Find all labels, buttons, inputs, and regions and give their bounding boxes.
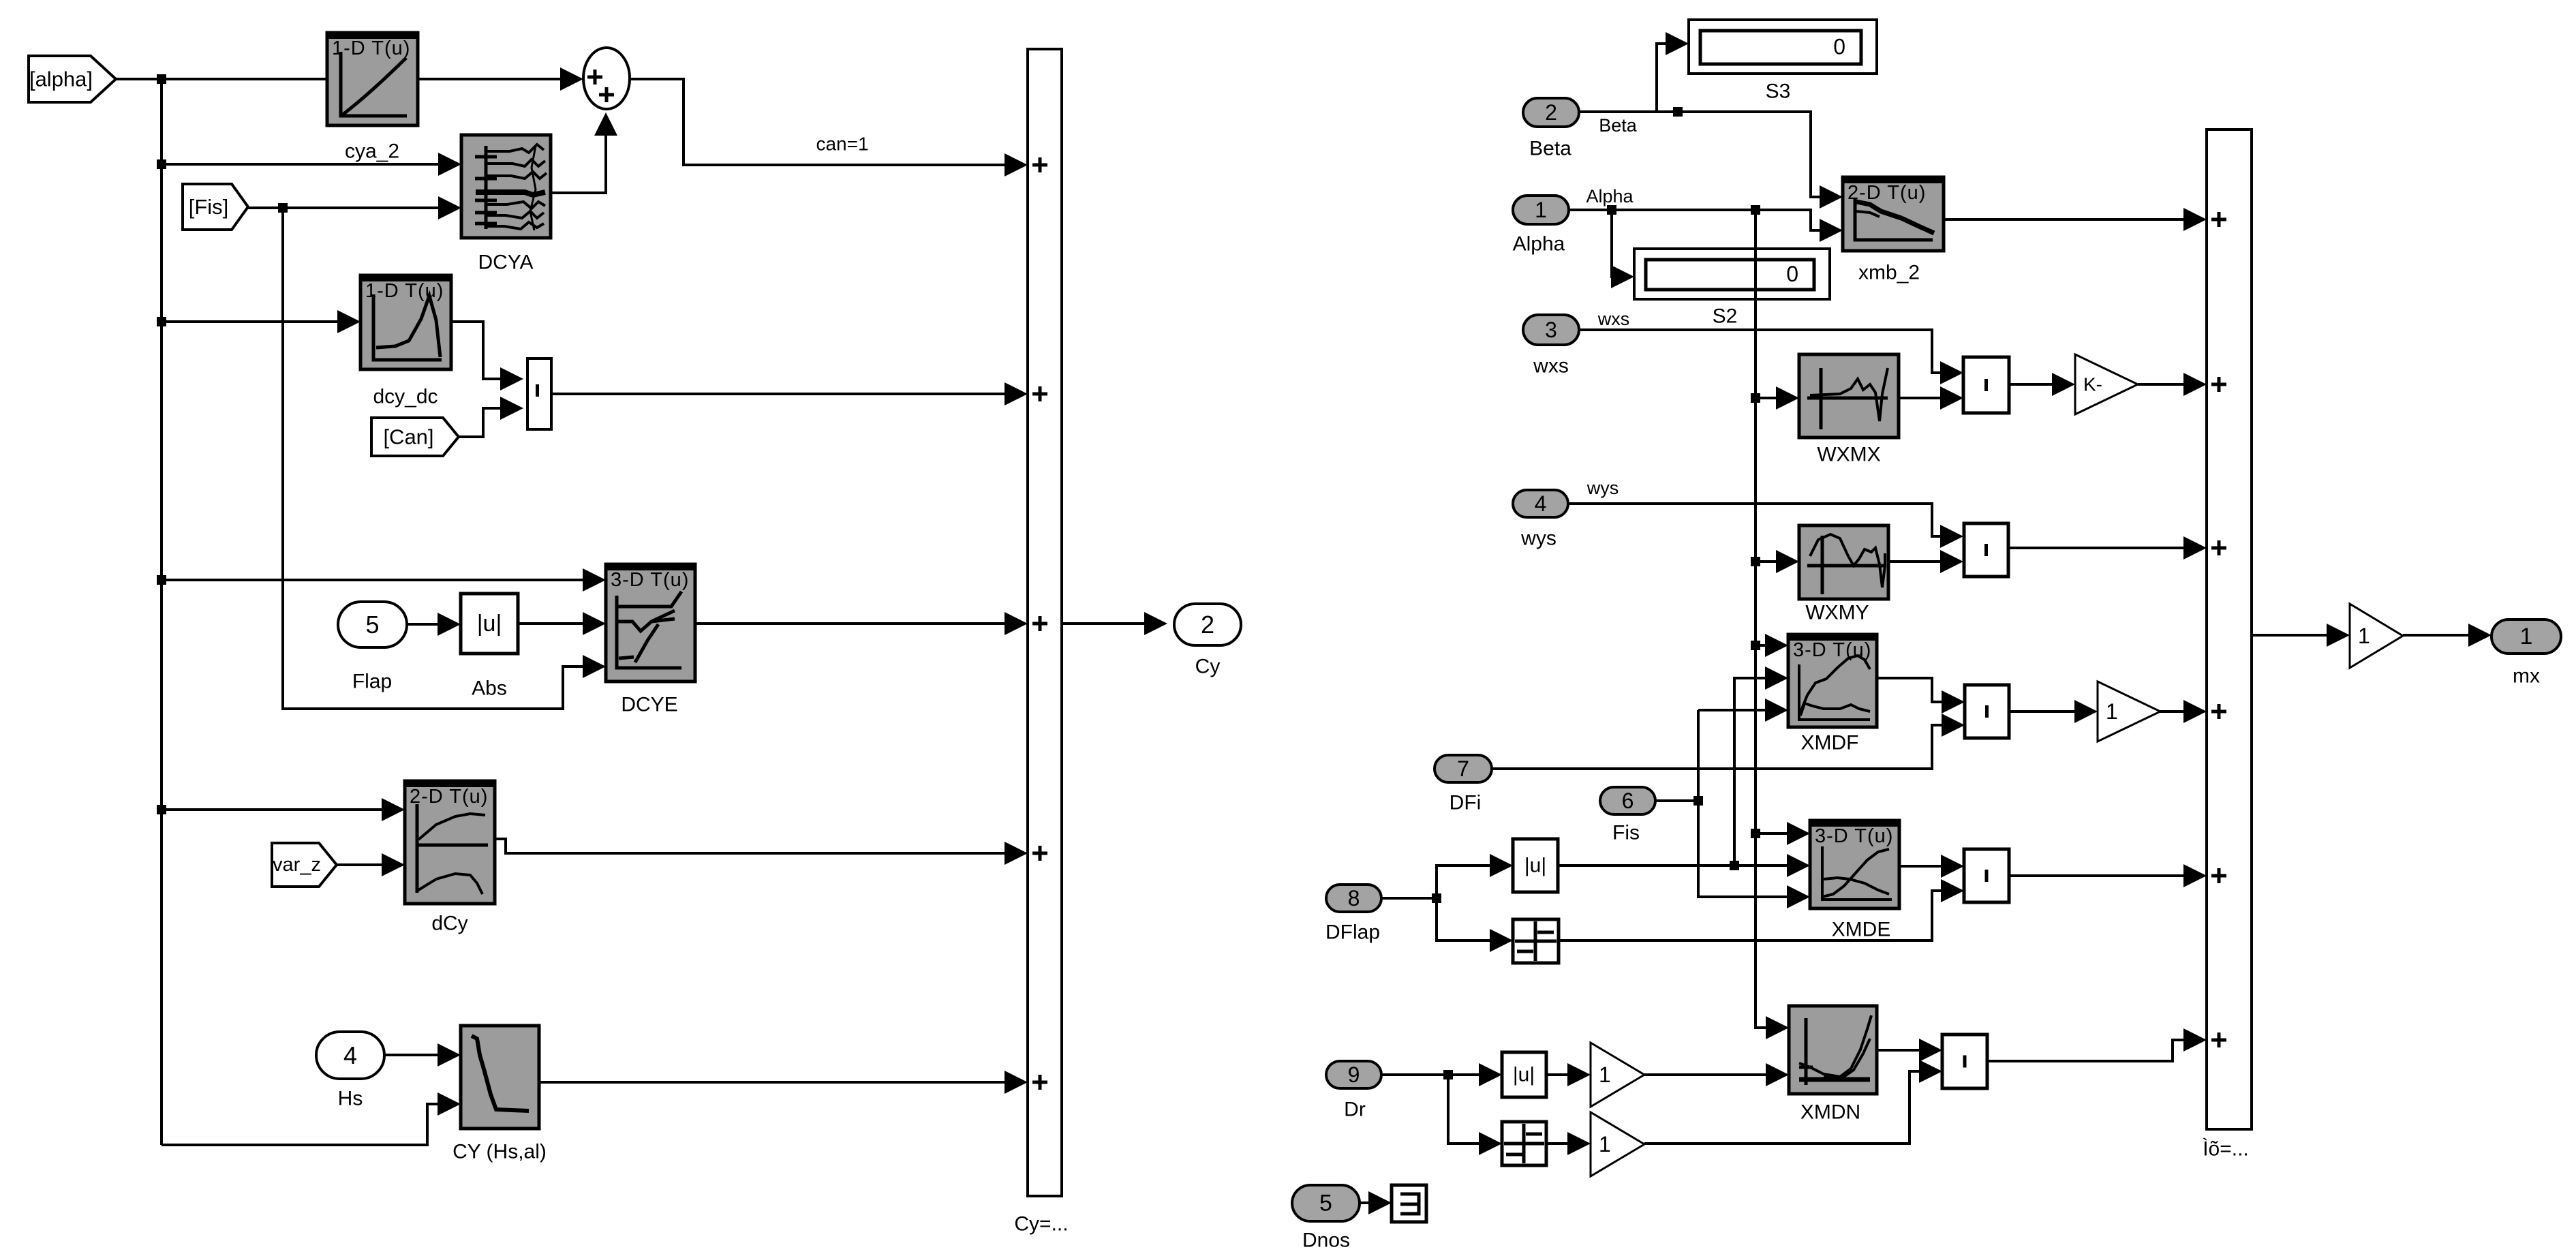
svg-text:Beta: Beta (1599, 115, 1638, 136)
junction Alpha bus XMDF (1751, 641, 1760, 650)
svg-text:DCYA: DCYA (478, 251, 533, 274)
inport 5 Flap (338, 602, 407, 647)
wire dCy out to Sum1 row4 (495, 839, 1021, 853)
svg-text:WXMX: WXMX (1817, 444, 1880, 466)
svg-text:1: 1 (2106, 699, 2118, 724)
svg-text:DFlap: DFlap (1325, 921, 1380, 944)
svg-text:4: 4 (343, 1041, 357, 1069)
wire Dr to Abs4 (1448, 1073, 1495, 1076)
wire sum2 out to Sum1 row2 (551, 393, 1021, 395)
wire alpha branch to DCYE in1 (162, 579, 599, 581)
gain 1 (Dr table) (1591, 1112, 1644, 1176)
wire WXMX out to product1 in2 (1899, 397, 1957, 399)
wire XMDE out to product4 in1 (1899, 865, 1957, 868)
wire Abs to DCYE in2 (518, 622, 599, 625)
svg-text:dcy_dc: dcy_dc (373, 386, 438, 408)
svg-text:wxs: wxs (1533, 355, 1569, 378)
svg-text:Cy=...: Cy=... (1014, 1213, 1068, 1236)
plus signs Sum2 (2211, 212, 2226, 227)
wire product4 to Sum row5 (2009, 874, 2200, 877)
svg-text:1-D T(u): 1-D T(u) (332, 37, 410, 59)
wire XMDN out to product5 in1 (1877, 1049, 1935, 1052)
from tag [Can] (371, 418, 459, 456)
wire sum output can=1 to Sum1 (630, 79, 1021, 165)
sum2 rectangle (527, 358, 551, 429)
svg-text:5: 5 (365, 611, 379, 639)
wire alpha branch to dCy in1 (162, 808, 398, 811)
svg-text:S2: S2 (1713, 305, 1738, 328)
block XMDF 3-D T(u) lookup (1788, 634, 1877, 727)
svg-text:|u|: |u| (477, 611, 502, 637)
svg-text:1: 1 (2520, 624, 2533, 649)
block XMDE 3-D T(u) lookup (1810, 821, 1899, 908)
outport 2 Cy (1174, 604, 1241, 645)
wire Flap to Abs (407, 623, 454, 626)
svg-text:mx: mx (2513, 665, 2540, 688)
svg-text:CY (Hs,al): CY (Hs,al) (453, 1141, 547, 1163)
block cya_2 1-D T(u) lookup (327, 33, 418, 125)
wire Dnos to terminator (1360, 1201, 1385, 1204)
wire Sum2 to gain mx (2252, 634, 2343, 637)
svg-text:9: 9 (1348, 1062, 1360, 1087)
svg-text:3-D T(u): 3-D T(u) (611, 569, 689, 591)
wire DFi to product3 in2 (1492, 725, 1958, 769)
junction Alpha bus WXMX (1751, 393, 1760, 403)
block DCYA lookup (461, 135, 551, 238)
svg-text:Alpha: Alpha (1586, 186, 1634, 206)
wire gain2b to product5 in2 (1644, 1071, 1935, 1144)
svg-text:wxs: wxs (1597, 309, 1630, 329)
svg-text:DCYE: DCYE (621, 694, 677, 716)
node alpha branch vertical (160, 79, 163, 1145)
svg-text:Hs: Hs (338, 1088, 363, 1110)
svg-text:DFi: DFi (1450, 792, 1482, 814)
vertical Alpha bus to XMDN (1755, 210, 1782, 1028)
sum circle ++ (583, 48, 630, 109)
from tag [Fis] (183, 184, 248, 230)
wire var_z to dCy in2 (337, 863, 398, 866)
svg-text:S3: S3 (1766, 80, 1791, 103)
wire Beta branch to display S3 (1657, 110, 1678, 113)
wire xmb_2 out to Sum row1 (1944, 218, 2200, 221)
wire gain2a to XMDN in2 (1644, 1073, 1782, 1076)
svg-text:Beta: Beta (1529, 138, 1571, 160)
wire alpha to XMDE in1 (1755, 832, 1803, 835)
wire Fis junction (1655, 799, 1698, 802)
display S3 (1689, 20, 1877, 74)
outport 1 mx (2491, 619, 2561, 654)
wire DFlap abs to XMDF in2 (1734, 678, 1781, 866)
inport 3 wxs (1523, 315, 1579, 345)
wire wxs to product1 in1 (1579, 330, 1957, 373)
block xmb_2 2-D T(u) lookup (1843, 177, 1944, 251)
wire Beta to xmb_2 in1 (1579, 112, 1836, 197)
block WXMX lookup (1799, 354, 1899, 438)
svg-text:6: 6 (1622, 788, 1634, 813)
svg-text:1: 1 (1599, 1132, 1611, 1157)
wire product2 to Sum row3 (2008, 547, 2200, 549)
gain 1 (XMDF row) (2098, 681, 2160, 741)
wire alpha branch to DCYA in1 (162, 163, 455, 166)
wire alpha bottom to CY in2 (162, 1104, 454, 1145)
svg-text:Dnos: Dnos (1302, 1229, 1350, 1252)
svg-text:|u|: |u| (1524, 855, 1546, 877)
wire DCYA out to sum bottom (551, 123, 606, 193)
svg-text:[Fis]: [Fis] (189, 195, 229, 219)
wire cya_2 to sum (418, 78, 577, 80)
svg-text:7: 7 (1457, 756, 1469, 781)
block dCy 2-D T(u) lookup (405, 781, 495, 904)
wire DFlap up to Abs3 (1437, 866, 1506, 898)
from tag var_z (272, 843, 337, 887)
wire Fis branch down to DCYE in3 (283, 208, 599, 709)
wire gain to Sum row4 (2160, 710, 2200, 713)
svg-text:Fis: Fis (1612, 822, 1640, 844)
svg-text:WXMY: WXMY (1805, 602, 1869, 624)
terminator block (1392, 1185, 1426, 1222)
svg-text:|u|: |u| (1513, 1064, 1535, 1086)
svg-text:5: 5 (1319, 1191, 1332, 1216)
inport 5 Dnos (1292, 1185, 1360, 1221)
svg-text:wys: wys (1586, 478, 1619, 498)
block CY (Hs,al) lookup (461, 1026, 539, 1129)
wire Fis to DCYA in2 (248, 206, 455, 209)
wire DCYE out to Sum1 row3 (695, 622, 1021, 625)
wire alpha to WXMY (1755, 560, 1792, 563)
wire alpha branch to dcy_dc (162, 320, 354, 323)
svg-text:1: 1 (1599, 1062, 1611, 1087)
wire Sum1 to outport Cy (1062, 622, 1161, 625)
svg-text:XMDF: XMDF (1801, 732, 1859, 754)
wire Hs to CY in1 (384, 1054, 454, 1056)
wire CY out to Sum1 row5 (539, 1081, 1021, 1084)
svg-text:var_z: var_z (273, 854, 321, 876)
junction Alpha to S2 branch (1607, 205, 1616, 215)
svg-text:2: 2 (1201, 611, 1214, 639)
svg-text:XMDN: XMDN (1800, 1101, 1860, 1124)
block XMDN lookup (1789, 1006, 1877, 1094)
svg-text:4: 4 (1535, 491, 1547, 516)
svg-text:0: 0 (1786, 262, 1798, 286)
svg-text:XMDE: XMDE (1832, 919, 1891, 941)
junction Alpha bus WXMY (1751, 557, 1760, 566)
inport 6 Fis (1600, 787, 1655, 814)
wire Fis to XMDF in3 (1698, 709, 1781, 711)
svg-text:3-D T(u): 3-D T(u) (1815, 825, 1893, 847)
block Abs3 |u| (1513, 839, 1558, 892)
junction Alpha bus XMDE (1751, 829, 1760, 838)
svg-text:xmb_2: xmb_2 (1858, 262, 1920, 284)
svg-text:[alpha]: [alpha] (29, 67, 93, 91)
from tag [alpha] (29, 56, 116, 102)
wire DFlap branch (1381, 897, 1437, 900)
product1 square (1963, 357, 2009, 413)
svg-text:Abs: Abs (472, 677, 507, 700)
svg-text:3: 3 (1545, 318, 1557, 342)
Sum2 vertical rectangle (2207, 129, 2252, 1129)
wire table2 to gain2b (1546, 1142, 1584, 1145)
inport 9 Dr (1326, 1061, 1381, 1088)
wire alpha to XMDF in1 (1755, 644, 1781, 647)
svg-text:1: 1 (2358, 624, 2370, 648)
wire Alpha to xmb_2 in2 (1569, 210, 1836, 230)
wire Fis vertical to XMDE in3 (1698, 710, 1803, 897)
block Abs4 |u| (1502, 1052, 1546, 1097)
wire gain to outport mx (2403, 634, 2485, 637)
gain 1 (mx) (2350, 604, 2403, 668)
svg-text:8: 8 (1348, 886, 1360, 910)
wire product5 to Sum row6 (1987, 1040, 2200, 1061)
svg-text:K-: K- (2083, 374, 2102, 395)
product2 square (1964, 523, 2008, 577)
product4 square (1964, 849, 2009, 902)
block dcy_dc 1-D T(u) lookup (361, 275, 451, 369)
product5 square (1942, 1035, 1987, 1088)
block DCYE 3-D T(u) lookup (606, 564, 695, 681)
inport 7 DFi (1435, 755, 1492, 782)
inport 2 Beta (1523, 98, 1579, 127)
wire Alpha branch to display S2 (1612, 210, 1627, 277)
wire Dr branch (1381, 1073, 1448, 1076)
wire XMDF out to product3 (1877, 678, 1958, 702)
wire alpha to WXMX (1755, 397, 1792, 399)
block Abs |u| (461, 594, 518, 654)
plus signs Sum1 (1032, 157, 1047, 172)
wire table1 out to product4 in2 (1559, 891, 1957, 940)
svg-text:can=1: can=1 (816, 134, 868, 155)
svg-text:1: 1 (1535, 198, 1547, 222)
gain K- (2075, 354, 2138, 414)
wire WXMY out to product2 in2 (1888, 560, 1957, 563)
svg-text:dCy: dCy (431, 913, 467, 935)
svg-text:0: 0 (1833, 35, 1845, 59)
wire dcy_dc out to sum2 (451, 322, 517, 379)
svg-text:Ìõ=...: Ìõ=... (2203, 1138, 2249, 1161)
product3 square (1965, 685, 2009, 738)
wire DFlap down to table1 (1437, 898, 1506, 940)
junction Alpha to bus branch (1751, 205, 1760, 215)
wire gain K- to Sum row2 (2138, 383, 2200, 386)
wire product3 to gain 1 (2009, 710, 2091, 713)
svg-text:1-D T(u): 1-D T(u) (365, 280, 444, 302)
wire Abs3 out to XMDE in2 (1558, 864, 1803, 867)
table2 selector block (1502, 1122, 1546, 1165)
inport 1 Alpha (1513, 196, 1569, 224)
svg-text:wys: wys (1520, 527, 1557, 550)
wire product1 to gain K- (2009, 383, 2068, 386)
svg-text:2: 2 (1545, 100, 1557, 125)
svg-text:Alpha: Alpha (1513, 233, 1565, 256)
inport 4 wys (1513, 490, 1568, 517)
wire Can to sum2 in2 (459, 408, 517, 437)
svg-text:Dr: Dr (1344, 1099, 1366, 1121)
Sum1 vertical rectangle (1028, 49, 1062, 1196)
inport 4 Hs (316, 1032, 384, 1079)
svg-text:[Can]: [Can] (383, 425, 433, 449)
block WXMY lookup (1799, 525, 1888, 599)
svg-text:cya_2: cya_2 (345, 140, 399, 163)
display S2 (1634, 249, 1830, 299)
gain 1 (Dr abs) (1591, 1043, 1644, 1107)
svg-text:Flap: Flap (352, 671, 392, 693)
svg-text:2-D T(u): 2-D T(u) (410, 786, 488, 808)
wire alpha to cya_2 lookup (116, 78, 577, 80)
wire Abs4 to gain2a (1546, 1073, 1584, 1076)
table1 selector block (1513, 919, 1559, 963)
wire Dr down to table2 (1448, 1075, 1495, 1144)
inport 8 DFlap (1326, 885, 1381, 912)
wire wys to product2 in1 (1568, 504, 1957, 536)
svg-text:Cy: Cy (1195, 656, 1221, 678)
